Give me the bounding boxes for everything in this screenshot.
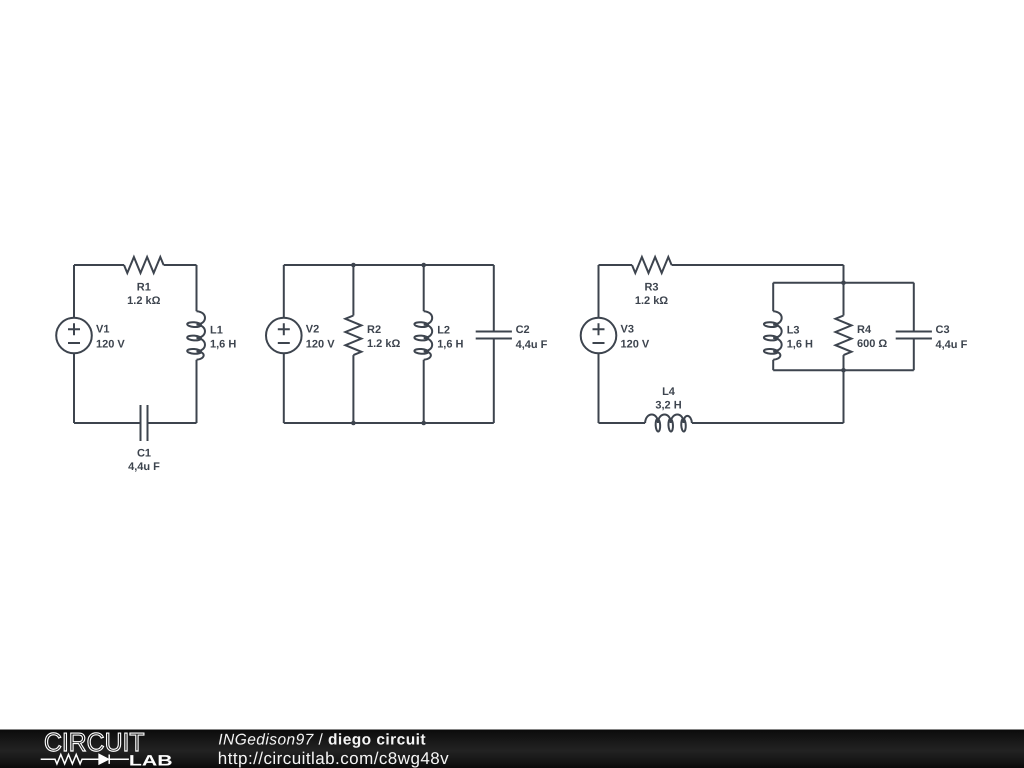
svg-text:C2: C2 [516, 324, 530, 336]
junction node [841, 280, 846, 285]
wire [493, 265, 495, 332]
resistor R1 [124, 257, 164, 273]
wire [352, 265, 354, 316]
svg-text:LAB: LAB [129, 752, 173, 768]
footer bar [0, 730, 1024, 768]
svg-text:120 V: 120 V [306, 338, 335, 350]
voltage source V2 [266, 318, 302, 354]
svg-text:1.2 kΩ: 1.2 kΩ [127, 295, 160, 307]
voltage source V3 [581, 318, 617, 354]
inductor L3 [764, 311, 782, 360]
wire [423, 265, 425, 311]
wire [284, 422, 494, 424]
wire [73, 265, 75, 318]
svg-text:V2: V2 [306, 324, 319, 336]
svg-text:C1: C1 [137, 447, 151, 459]
wire [913, 339, 915, 371]
svg-text:INGedison97 / diego circuit: INGedison97 / diego circuit [218, 732, 426, 749]
wire [284, 264, 494, 266]
wire [772, 360, 774, 370]
svg-text:V3: V3 [621, 324, 634, 336]
svg-text:1.2 kΩ: 1.2 kΩ [635, 295, 668, 307]
voltage source V1 [56, 318, 92, 354]
wire [692, 422, 844, 424]
resistor R2 [345, 316, 361, 356]
wire [283, 265, 285, 318]
svg-text:L2: L2 [437, 325, 450, 337]
svg-text:R2: R2 [367, 324, 381, 336]
wire [772, 283, 774, 312]
wire [843, 370, 845, 423]
svg-text:120 V: 120 V [621, 338, 650, 350]
junction node [421, 263, 426, 268]
logo resistor-diode doodle [41, 755, 129, 764]
wire [74, 422, 141, 424]
svg-text:1.2 kΩ: 1.2 kΩ [367, 338, 400, 350]
svg-text:http://circuitlab.com/c8wg48v: http://circuitlab.com/c8wg48v [218, 749, 449, 768]
inductor L1 [187, 311, 205, 360]
wire [148, 422, 197, 424]
svg-text:V1: V1 [96, 324, 109, 336]
wire [423, 360, 425, 423]
wire [73, 353, 75, 423]
wire [843, 265, 845, 283]
capacitor C3 [896, 332, 932, 339]
wire [843, 283, 845, 316]
capacitor C1 [141, 405, 148, 441]
wire [196, 360, 198, 423]
wire [773, 282, 914, 284]
svg-text:L3: L3 [787, 325, 800, 337]
wire [196, 265, 198, 311]
svg-text:1,6 H: 1,6 H [437, 338, 463, 350]
wire [599, 264, 633, 266]
wire [598, 265, 600, 318]
wire [843, 355, 845, 370]
svg-text:600 Ω: 600 Ω [857, 338, 887, 350]
junction node [841, 368, 846, 373]
capacitor C2 [476, 332, 512, 339]
svg-text:R4: R4 [857, 324, 872, 336]
resistor R4 [836, 316, 852, 356]
wire [913, 283, 915, 332]
junction node [421, 421, 426, 426]
wire [352, 355, 354, 423]
svg-text:1,6 H: 1,6 H [787, 338, 813, 350]
junction node [351, 263, 356, 268]
wire [672, 264, 844, 266]
wire [598, 353, 600, 423]
svg-text:R1: R1 [137, 282, 151, 294]
wire [164, 264, 197, 266]
svg-text:120 V: 120 V [96, 338, 125, 350]
svg-text:1,6 H: 1,6 H [210, 338, 236, 350]
wire [74, 264, 124, 266]
resistor R3 [632, 257, 672, 273]
svg-text:4,4u F: 4,4u F [936, 339, 968, 351]
wire [599, 422, 646, 424]
svg-text:L1: L1 [210, 325, 223, 337]
wire [773, 369, 914, 371]
svg-text:L4: L4 [662, 386, 676, 398]
svg-text:R3: R3 [644, 282, 658, 294]
junction node [351, 421, 356, 426]
wire [283, 353, 285, 423]
svg-text:4,4u F: 4,4u F [516, 339, 548, 351]
svg-text:4,4u F: 4,4u F [128, 461, 160, 473]
inductor L4 [645, 415, 692, 432]
wire [493, 339, 495, 424]
inductor L2 [414, 311, 432, 360]
svg-text:C3: C3 [936, 324, 950, 336]
svg-text:3,2 H: 3,2 H [655, 400, 681, 412]
